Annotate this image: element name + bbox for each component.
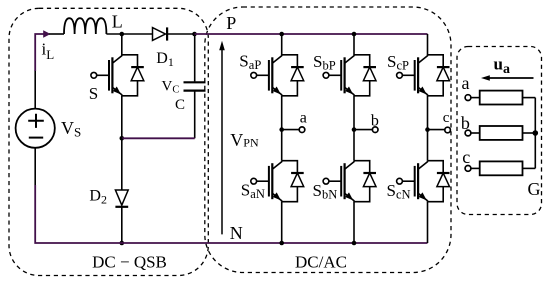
transistor ScP — [397, 55, 450, 96]
terminal b (load) — [465, 130, 471, 136]
wire leg c middle — [427, 96, 429, 161]
diode D1 — [153, 27, 195, 40]
svg-text:DC − QSB: DC − QSB — [92, 252, 167, 271]
terminal b — [372, 127, 378, 133]
svg-text:L: L — [112, 12, 123, 32]
svg-text:b: b — [461, 113, 470, 133]
load resistor a — [480, 91, 523, 105]
wire load a right — [523, 97, 536, 99]
wire node a stub — [282, 129, 301, 131]
node a junction — [279, 127, 284, 132]
wire load b left — [471, 132, 480, 134]
node P leg b — [352, 32, 357, 37]
wire leg b lower — [353, 202, 355, 243]
svg-text:c: c — [443, 110, 450, 126]
terminal c — [445, 127, 451, 133]
arrow VPN — [219, 41, 225, 235]
load resistor c — [480, 161, 523, 175]
transistor SaP — [251, 55, 304, 96]
wire leg a upper — [281, 34, 283, 55]
DC-QSB dashed block border — [9, 8, 208, 275]
svg-text:DC/AC: DC/AC — [295, 252, 347, 271]
wire leg a lower — [281, 202, 283, 243]
wire load c left — [471, 167, 480, 169]
wire load bus — [534, 98, 536, 169]
node D1 cathode — [192, 32, 197, 37]
P rail (purple) — [195, 33, 428, 35]
wire node c stub — [428, 129, 447, 131]
wire VS top lead — [34, 70, 36, 109]
generator G dashed block border — [457, 47, 542, 215]
wire load a left — [471, 97, 480, 99]
voltage source VS — [16, 109, 55, 148]
wire load b right — [523, 132, 536, 134]
capacitor C — [184, 34, 206, 138]
transistor SbN — [323, 161, 376, 202]
wire S collector — [121, 34, 123, 55]
wire leg b upper — [353, 34, 355, 55]
transistor S (IGBT with antiparallel diode) — [91, 55, 144, 96]
node b junction — [352, 127, 357, 132]
svg-text:a: a — [462, 73, 470, 93]
load resistor b — [480, 126, 523, 140]
wire D2 anode — [121, 138, 123, 190]
N rail (purple) — [35, 185, 427, 243]
wire load c right — [523, 167, 536, 169]
node N leg b — [352, 241, 357, 246]
svg-text:a: a — [300, 110, 307, 127]
svg-text:N: N — [230, 223, 243, 243]
wire leg a middle — [281, 96, 283, 161]
current arrow iL — [35, 30, 50, 71]
inductor L — [64, 18, 106, 34]
wire arrow to inductor — [49, 33, 64, 35]
node D2 cathode on N rail — [120, 241, 125, 246]
node after inductor — [120, 32, 125, 37]
wire leg c lower — [427, 202, 429, 243]
svg-text:S: S — [89, 84, 98, 103]
node P leg a — [279, 32, 284, 37]
wire mid (purple) — [122, 137, 195, 139]
transistor ScN — [397, 161, 450, 202]
svg-text:G: G — [528, 179, 541, 199]
node load bus — [533, 130, 539, 136]
transistor SaN — [251, 161, 304, 202]
wire S emitter — [121, 96, 123, 139]
transistor SbP — [323, 55, 376, 96]
node c junction — [425, 127, 430, 132]
wire VS bottom lead — [34, 148, 36, 185]
svg-text:C: C — [175, 97, 185, 113]
node N leg a — [279, 241, 284, 246]
arrow ua — [481, 75, 534, 81]
terminal a — [299, 127, 305, 133]
terminal a (load) — [465, 95, 471, 101]
terminal c (load) — [465, 166, 471, 172]
node S emitter — [120, 136, 125, 141]
svg-text:P: P — [226, 13, 236, 33]
DC/AC dashed block border — [205, 7, 451, 273]
diode D2 — [115, 190, 128, 243]
svg-text:b: b — [371, 113, 379, 130]
svg-text:c: c — [462, 147, 470, 167]
wire leg b middle — [353, 96, 355, 161]
wire node b stub — [354, 129, 373, 131]
wire leg c upper — [427, 34, 429, 55]
wire inductor to D1 — [106, 33, 152, 35]
